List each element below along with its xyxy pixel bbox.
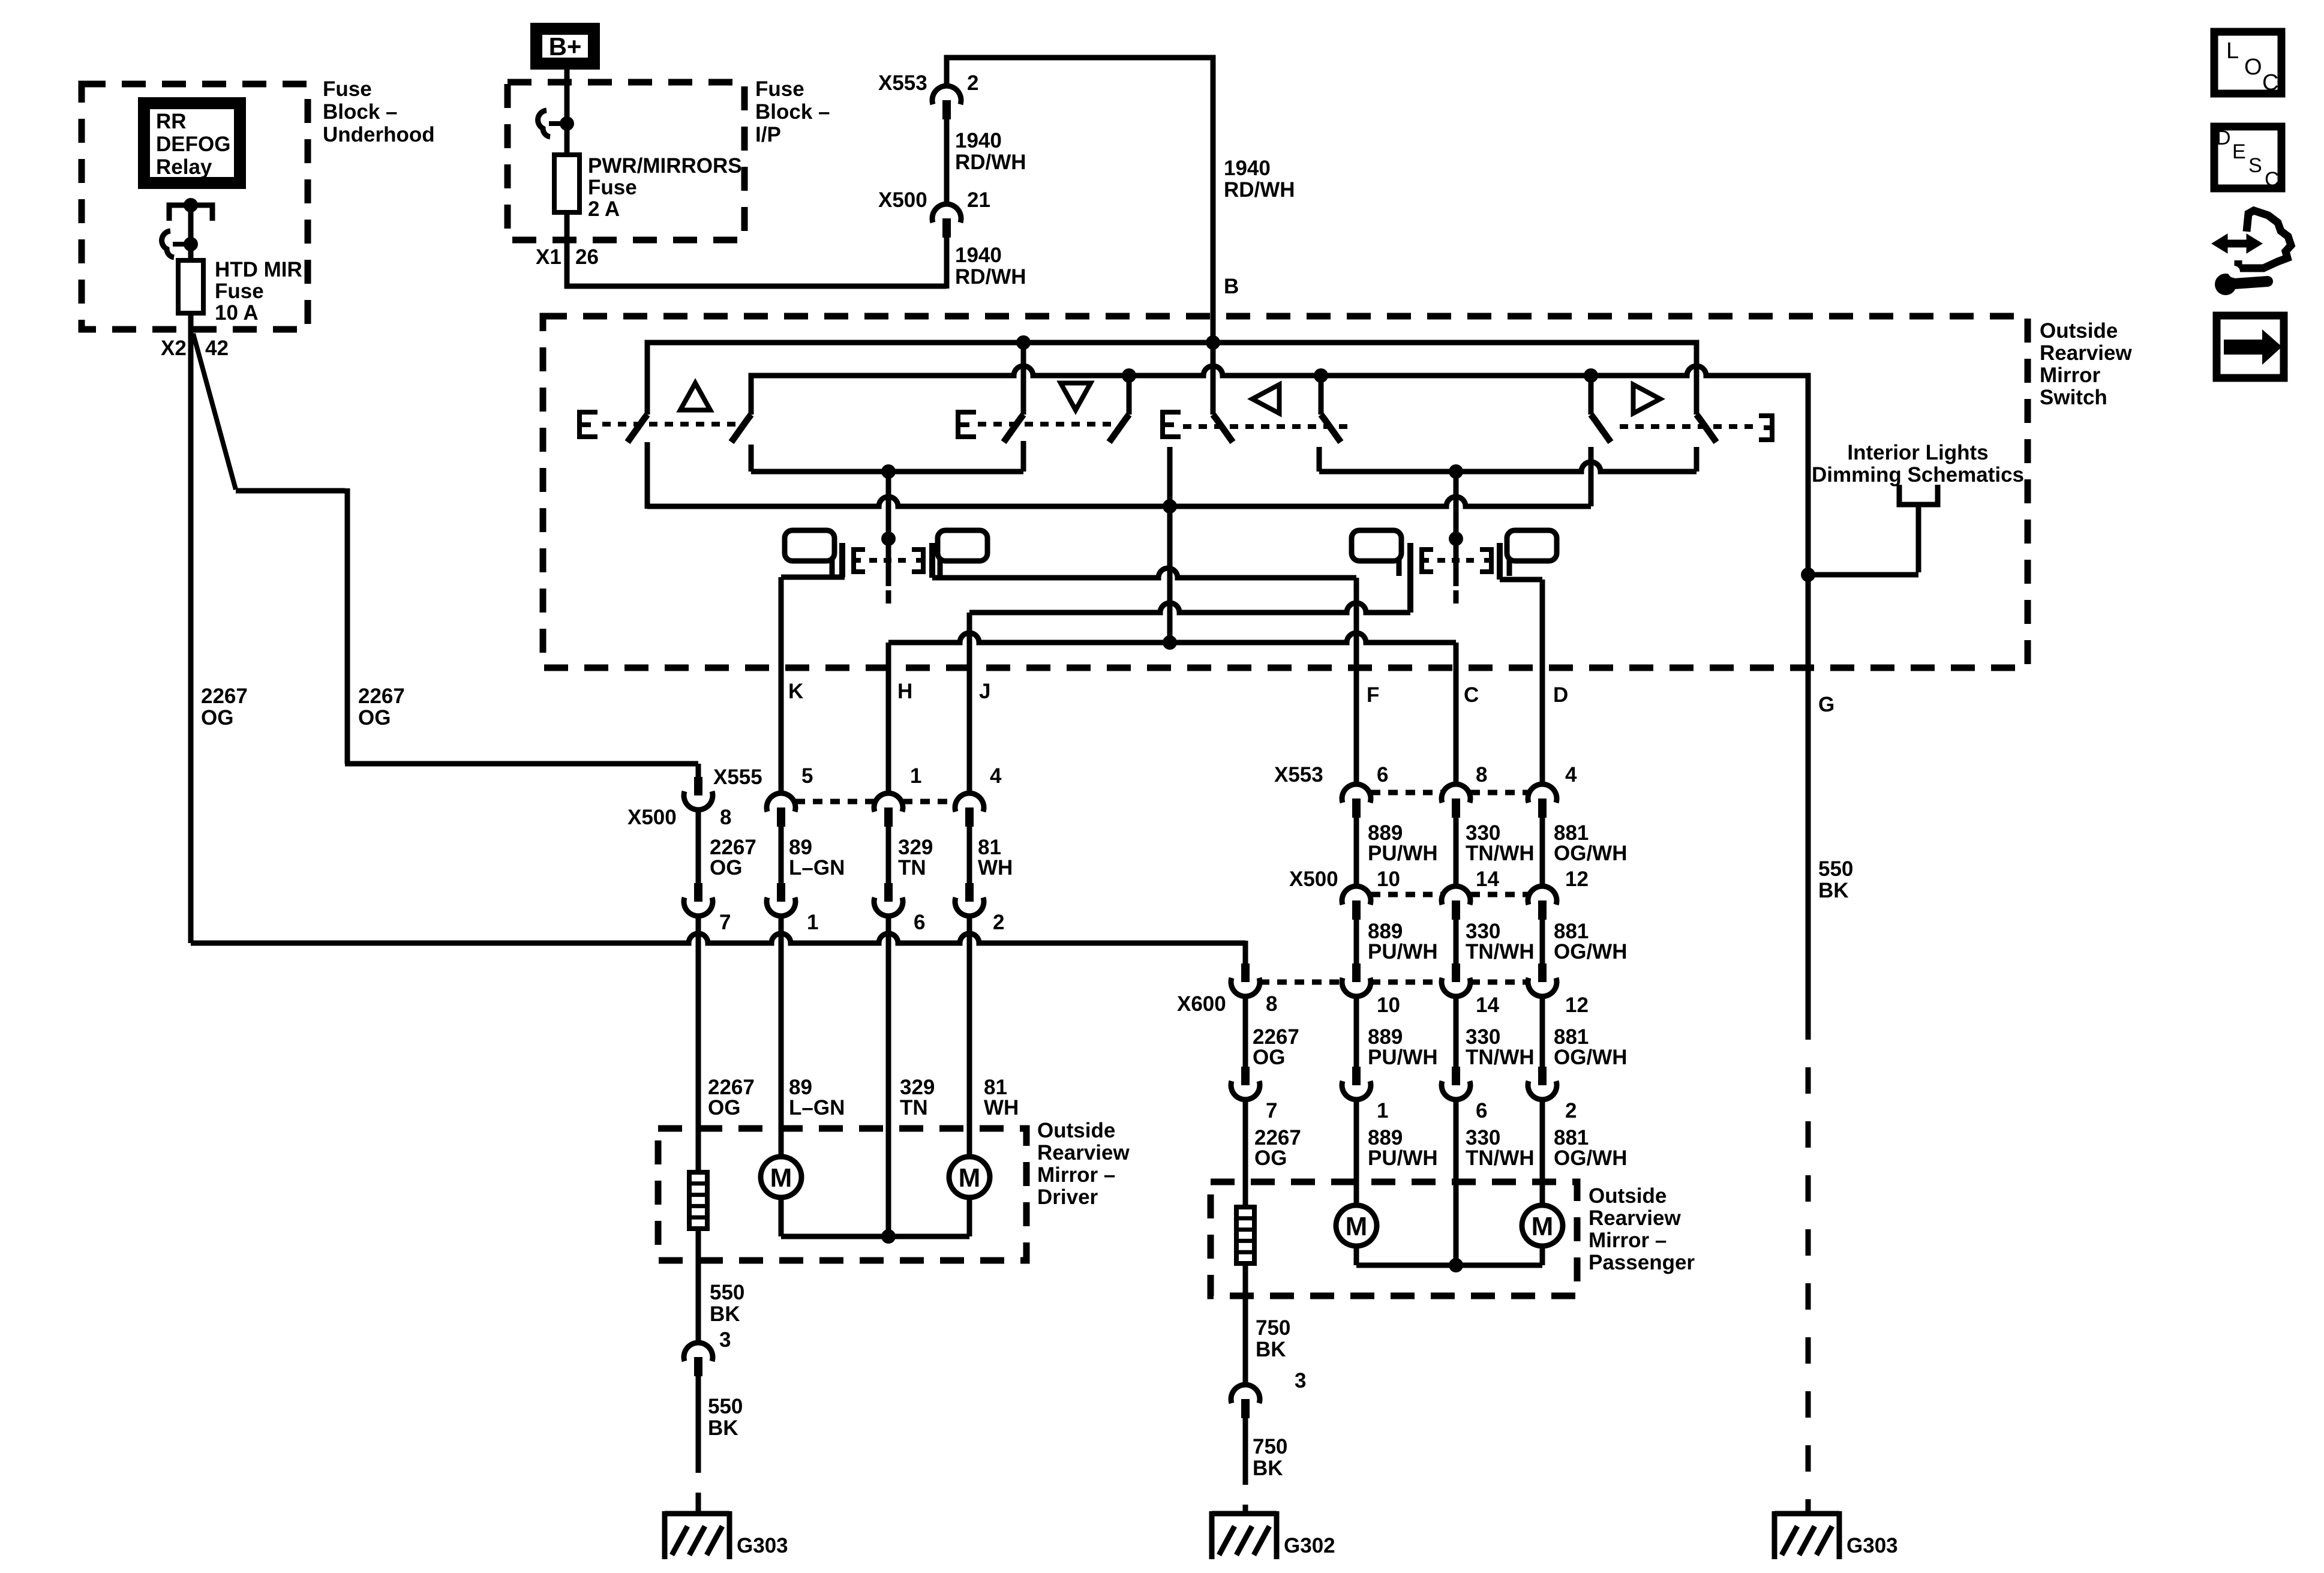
svg-text:8: 8: [720, 806, 731, 829]
svg-text:I/P: I/P: [755, 123, 781, 146]
svg-text:8: 8: [1266, 992, 1277, 1016]
right switch contact A upper terminal: [1589, 376, 1594, 415]
svg-text:Rearview: Rearview: [2040, 341, 2132, 365]
connector X553 pin 4: [1528, 784, 1557, 803]
driver motor left: [761, 1157, 801, 1197]
connector row4 pin 1: [1352, 1067, 1361, 1085]
wire G solid: [1806, 668, 1811, 1013]
wire F x500-x600: [1354, 918, 1359, 963]
down switch contact B blade: [1109, 415, 1129, 442]
svg-text:Rearview: Rearview: [1037, 1141, 1130, 1164]
passenger select dashed linkage: [1437, 558, 1478, 563]
fuse block - I/P (dashed box): [508, 82, 744, 240]
wire D x600-row4: [1540, 996, 1545, 1067]
svg-text:42: 42: [205, 337, 229, 360]
up switch contact A blade: [627, 415, 647, 442]
connector X500 pin 8: [694, 777, 702, 795]
wire F to passenger motor: [1354, 1100, 1359, 1205]
connector X600 pin 14: [1452, 963, 1460, 982]
svg-text:RD/WH: RD/WH: [955, 265, 1026, 289]
connector X553 pin 8: [1442, 784, 1470, 803]
svg-text:X553: X553: [1274, 763, 1323, 786]
svg-text:TN/WH: TN/WH: [1466, 1046, 1535, 1069]
connector X600 pin 8: [1241, 963, 1250, 982]
svg-text:Dimming Schematics: Dimming Schematics: [1812, 463, 2024, 487]
svg-text:J: J: [979, 680, 990, 703]
svg-text:G303: G303: [737, 1534, 788, 1557]
svg-text:RD/WH: RD/WH: [955, 151, 1026, 174]
svg-text:C: C: [2265, 168, 2280, 191]
svg-text:M: M: [1346, 1212, 1368, 1241]
line L3: H to C: [888, 633, 1456, 643]
breaker hook: [162, 231, 174, 257]
driver select right bar: [929, 543, 935, 578]
svg-text:550: 550: [1818, 857, 1853, 881]
connector X500 pin 14: [1442, 886, 1470, 905]
connector X555 pin 1: [874, 793, 903, 812]
driver motor right: [949, 1157, 990, 1197]
svg-text:2: 2: [967, 71, 978, 95]
svg-text:6: 6: [1476, 1099, 1487, 1122]
down switch contact A lower terminal: [1021, 441, 1026, 472]
connector X553 pin 6: [1342, 784, 1371, 803]
svg-text:G302: G302: [1284, 1534, 1335, 1557]
wire fuse to X1-26: [565, 212, 570, 289]
driver select reverse-E: [912, 550, 923, 572]
svg-text:WH: WH: [978, 856, 1013, 879]
dot driver pole feed: [881, 464, 896, 479]
svg-text:X1: X1: [536, 245, 562, 269]
svg-text:10 A: 10 A: [215, 301, 259, 325]
driver select left bar: [839, 543, 845, 577]
LOC icon box: [2214, 32, 2281, 94]
breaker hook I/P: [538, 110, 550, 137]
passenger motor left: [1336, 1205, 1377, 1246]
passenger select pole: [1454, 472, 1459, 586]
svg-text:2: 2: [993, 911, 1004, 934]
svg-text:WH: WH: [984, 1096, 1019, 1119]
ground G303 left: [665, 1511, 729, 1517]
svg-text:10: 10: [1377, 993, 1400, 1017]
line L1: driver right bar to F: [932, 568, 1356, 578]
relay contact brackets: [169, 205, 187, 221]
svg-text:BK: BK: [1818, 879, 1849, 902]
right arrow symbol: [1634, 385, 1661, 413]
svg-text:B+: B+: [549, 32, 582, 61]
svg-text:Rearview: Rearview: [1589, 1206, 1681, 1230]
svg-text:M: M: [959, 1163, 981, 1193]
svg-text:8: 8: [1476, 763, 1487, 786]
svg-text:2267: 2267: [201, 685, 248, 708]
driver select dashed linkage: [869, 558, 909, 563]
svg-text:OG: OG: [1253, 1046, 1285, 1069]
svg-text:OG/WH: OG/WH: [1554, 940, 1627, 963]
wire 2267 x600-row4: [1243, 996, 1248, 1067]
wire H above: [886, 643, 891, 793]
svg-text:HTD MIR: HTD MIR: [215, 258, 302, 281]
outside rearview mirror passenger (dashed box): [1211, 1182, 1577, 1296]
svg-text:3: 3: [1295, 1369, 1306, 1392]
driver motor left wire down: [779, 1197, 784, 1236]
connector driver pin 3: [684, 1343, 713, 1361]
locator icon (car with arrow and wrench): [2212, 234, 2247, 253]
svg-text:G: G: [1818, 693, 1834, 716]
svg-text:C: C: [1464, 683, 1479, 707]
driver mirror icon left: [785, 530, 834, 561]
passenger select reverse-E: [1480, 550, 1491, 572]
bus1 (battery bus): [647, 343, 1697, 415]
svg-text:6: 6: [1377, 763, 1388, 786]
outside rearview mirror driver (dashed box): [658, 1128, 1026, 1260]
connector row pin2: [965, 883, 974, 902]
svg-text:O: O: [2244, 55, 2262, 80]
svg-text:X2: X2: [161, 337, 187, 360]
svg-text:Mirror –: Mirror –: [1589, 1229, 1667, 1252]
wire H to driver common: [886, 916, 891, 1236]
svg-text:OG: OG: [201, 706, 233, 730]
connector X600 pin 10: [1352, 963, 1361, 982]
wire D x500-x600: [1540, 918, 1545, 963]
connector X500 pin 10: [1342, 886, 1371, 905]
wire C to passenger common: [1454, 1100, 1459, 1265]
svg-text:X500: X500: [627, 806, 677, 829]
svg-text:X553: X553: [878, 71, 927, 95]
right actuator dashed link: [1620, 424, 1755, 429]
svg-text:14: 14: [1476, 993, 1499, 1017]
bus1 junction dots: [1016, 335, 1031, 350]
svg-text:TN/WH: TN/WH: [1466, 1146, 1535, 1170]
wire over the top to B: [947, 58, 1213, 415]
connector row pin1b: [777, 883, 785, 902]
svg-text:3: 3: [719, 1328, 731, 1352]
wire J middle: [967, 825, 972, 883]
wire C x500-x600: [1454, 918, 1459, 963]
wire F above: [1354, 578, 1359, 784]
wire colA X500-8 down: [696, 810, 701, 883]
svg-text:BK: BK: [710, 1302, 740, 1326]
X555 dashed link: [795, 799, 874, 804]
svg-text:PWR/MIRRORS: PWR/MIRRORS: [588, 154, 742, 178]
svg-text:PU/WH: PU/WH: [1368, 1146, 1438, 1170]
wire C x553-x500: [1454, 816, 1459, 886]
svg-text:OG: OG: [710, 856, 742, 879]
svg-text:X600: X600: [1177, 992, 1226, 1016]
wire 2267 to X600: [1243, 941, 1248, 963]
down switch contact A upper terminal: [1021, 343, 1026, 415]
passenger heater element: [1236, 1207, 1254, 1263]
svg-text:L: L: [2226, 38, 2239, 64]
right switch contact A lower terminal: [1589, 447, 1594, 506]
svg-text:C: C: [2262, 70, 2278, 95]
svg-text:Switch: Switch: [2040, 386, 2107, 409]
wire branch horizontal: [236, 488, 345, 494]
X600 dashed link: [1260, 980, 1342, 985]
B+ power symbol: [536, 29, 594, 64]
svg-text:10: 10: [1377, 867, 1400, 891]
line passenger right bar to D: [1500, 577, 1542, 583]
left switch contact A lower terminal: [1167, 447, 1173, 643]
wire F x600-row4: [1354, 996, 1359, 1067]
wire fuse to X2-42: [188, 313, 194, 943]
branch diagonal: [193, 334, 236, 490]
up switch contact B blade: [731, 415, 751, 442]
svg-text:TN: TN: [898, 856, 926, 879]
wire up-A bottom corner: [645, 504, 650, 509]
svg-text:M: M: [770, 1163, 792, 1193]
svg-text:OG: OG: [1254, 1146, 1287, 1170]
passenger motor left wire down: [1354, 1246, 1359, 1265]
svg-text:750: 750: [1253, 1435, 1287, 1458]
wire branch vertical: [345, 488, 350, 764]
svg-text:S: S: [2248, 154, 2262, 177]
svg-text:5: 5: [801, 764, 813, 788]
svg-text:Mirror: Mirror: [2040, 364, 2101, 387]
driver motor right wire down: [967, 1197, 972, 1236]
connector X600 pin 12: [1538, 963, 1547, 982]
left switch contact A blade: [1213, 415, 1233, 442]
svg-text:Driver: Driver: [1037, 1185, 1098, 1209]
line L2: J to passenger left bar: [969, 603, 1410, 613]
down switch contact A blade: [1004, 415, 1023, 442]
svg-text:1940: 1940: [955, 129, 1002, 152]
svg-text:Outside: Outside: [2040, 319, 2118, 343]
fuse PWR/MIRRORS 2A: [554, 155, 580, 212]
svg-text:1940: 1940: [955, 244, 1002, 267]
svg-text:4: 4: [990, 764, 1002, 788]
wire relay to breaker: [188, 205, 194, 260]
svg-text:TN: TN: [900, 1096, 928, 1119]
passenger mirror icon right: [1507, 530, 1557, 561]
connector X555 pin 5: [767, 793, 795, 812]
wire B+ down: [565, 70, 570, 155]
passenger select pole tip (dashed): [1454, 590, 1459, 604]
dashed wire to G302: [1243, 1461, 1248, 1511]
left switch contact B upper terminal: [1319, 376, 1324, 415]
passenger common bus: [1356, 1263, 1542, 1268]
connector row4 pin 6: [1452, 1067, 1460, 1085]
connector X500 pin 21: [932, 204, 961, 223]
bus2 junction dots: [1122, 368, 1136, 383]
svg-text:Relay: Relay: [156, 155, 212, 179]
wire branch to X500-8: [345, 761, 698, 767]
svg-text:PU/WH: PU/WH: [1368, 842, 1438, 865]
driver select E: [854, 550, 865, 572]
wire X500-21 to X553-2: [944, 118, 950, 204]
passenger select left bar: [1407, 543, 1413, 613]
right actuator end bracket: [1759, 416, 1772, 440]
wire K above: [779, 577, 784, 793]
svg-text:DEFOG: DEFOG: [156, 133, 230, 156]
ground G302: [1212, 1511, 1277, 1517]
outside rearview mirror switch (dashed box): [543, 316, 2028, 668]
wire C above: [1454, 643, 1459, 784]
wire below pin3: [696, 1375, 701, 1449]
svg-text:1: 1: [1377, 1099, 1388, 1122]
wire D to passenger motor: [1540, 1100, 1545, 1205]
svg-text:7: 7: [719, 911, 731, 934]
up switch contact B lower terminal: [749, 445, 754, 472]
svg-text:D: D: [2216, 127, 2231, 149]
dashed wire to G303: [696, 1449, 701, 1511]
X500 dashed link: [1371, 892, 1442, 897]
wire 2267 to passenger heater: [1243, 1100, 1248, 1207]
dashed wire G to G303: [1806, 1013, 1811, 1511]
up arrow symbol: [680, 383, 710, 410]
svg-text:L–GN: L–GN: [789, 1096, 845, 1119]
svg-text:F: F: [1367, 683, 1379, 707]
svg-text:L–GN: L–GN: [789, 856, 845, 879]
up/down actuator E: [580, 412, 597, 437]
svg-text:4: 4: [1565, 763, 1577, 786]
svg-text:OG: OG: [358, 706, 391, 730]
ground G303 right: [1774, 1511, 1839, 1517]
svg-text:2 A: 2 A: [588, 197, 620, 221]
svg-text:1940: 1940: [1224, 157, 1271, 180]
connector X500 pin 12: [1528, 886, 1557, 905]
wire H middle: [886, 825, 891, 883]
right switch contact A blade: [1591, 415, 1611, 442]
down actuator E: [958, 412, 976, 437]
wire below passenger pin3: [1243, 1417, 1248, 1461]
wire J to driver motor: [967, 916, 972, 1157]
dot passenger pole feed: [1449, 464, 1463, 479]
mid bus: [647, 497, 1591, 506]
left arrow symbol: [1253, 385, 1280, 413]
svg-text:Block –: Block –: [323, 100, 398, 124]
svg-text:Mirror –: Mirror –: [1037, 1163, 1115, 1187]
svg-text:B: B: [1224, 275, 1239, 298]
svg-text:750: 750: [1256, 1316, 1290, 1340]
wire 2267 feed horizontal: [191, 933, 1245, 943]
svg-text:12: 12: [1565, 867, 1589, 891]
svg-text:Underhood: Underhood: [323, 123, 435, 146]
left actuator E: [1163, 412, 1181, 437]
down actuator dashed link: [978, 422, 1117, 427]
svg-text:D: D: [1553, 683, 1568, 707]
relay RR DEFOG (bold box): [144, 103, 240, 183]
connector X553 pin 2: [932, 86, 961, 104]
fuse block - underhood (dashed box): [82, 84, 308, 329]
svg-text:Fuse: Fuse: [215, 280, 264, 303]
svg-text:550: 550: [708, 1395, 743, 1418]
passenger select right bar: [1497, 543, 1503, 580]
passenger motor right: [1522, 1205, 1563, 1246]
up switch contact A lower terminal: [645, 442, 650, 506]
svg-text:14: 14: [1476, 867, 1499, 891]
wire passenger heater down: [1243, 1263, 1248, 1385]
connector row4 pin 2: [1538, 1067, 1547, 1085]
svg-text:12: 12: [1565, 993, 1589, 1017]
svg-text:Block –: Block –: [755, 100, 830, 124]
passenger motor right wire down: [1540, 1246, 1545, 1265]
svg-text:OG: OG: [708, 1096, 740, 1119]
line y786 right segment: [1319, 462, 1697, 472]
svg-text:X500: X500: [1289, 867, 1338, 891]
svg-text:21: 21: [967, 188, 990, 212]
wire driver heater down: [696, 1229, 701, 1343]
left switch contact B blade: [1321, 415, 1341, 442]
svg-text:1: 1: [910, 764, 921, 788]
wire J above: [967, 613, 972, 793]
driver select pole tip (dashed): [886, 590, 891, 604]
driver select pole: [886, 472, 891, 586]
left switch contact B lower terminal: [1317, 447, 1322, 472]
svg-text:2: 2: [1565, 1099, 1577, 1122]
svg-text:OG/WH: OG/WH: [1554, 1146, 1627, 1170]
wire K to driver motor: [779, 916, 784, 1157]
connector row pin7: [694, 883, 702, 902]
svg-text:26: 26: [575, 245, 599, 269]
svg-text:M: M: [1532, 1212, 1554, 1241]
X553 dashed link: [1371, 790, 1442, 795]
connector row pin6: [884, 883, 893, 902]
connector row4 pin 7: [1241, 1067, 1250, 1085]
svg-text:Passenger: Passenger: [1589, 1251, 1695, 1274]
wire F x553-x500: [1354, 816, 1359, 886]
svg-text:Outside: Outside: [1037, 1119, 1115, 1142]
svg-text:Fuse: Fuse: [755, 77, 804, 101]
right switch contact B lower terminal: [1694, 447, 1700, 472]
wire K middle: [779, 825, 784, 883]
svg-text:RR: RR: [156, 110, 187, 133]
wire C x600-row4: [1454, 996, 1459, 1067]
connector X555 pin 4: [955, 793, 984, 812]
down switch contact B upper terminal: [1127, 376, 1132, 415]
svg-text:2267: 2267: [358, 685, 405, 708]
down arrow symbol: [1061, 383, 1091, 410]
svg-text:X555: X555: [713, 766, 762, 789]
wire to X500-21: [565, 284, 947, 289]
bus2 (second bus): [751, 366, 1808, 668]
right switch contact B blade: [1697, 415, 1716, 442]
fuse HTD MIR 10A: [178, 260, 203, 313]
svg-text:X500: X500: [878, 188, 927, 212]
DESC icon box: [2214, 127, 2281, 188]
svg-text:1: 1: [807, 911, 818, 934]
interior lights branch wire: [1808, 572, 1918, 578]
svg-text:Outside: Outside: [1589, 1184, 1667, 1208]
svg-text:BK: BK: [708, 1416, 738, 1440]
svg-text:K: K: [788, 680, 803, 703]
driver common bus: [781, 1234, 969, 1239]
driver heater element: [689, 1172, 707, 1229]
svg-text:E: E: [2232, 140, 2246, 163]
svg-text:PU/WH: PU/WH: [1368, 1046, 1438, 1069]
svg-text:Fuse: Fuse: [588, 176, 637, 199]
passenger select E: [1422, 550, 1433, 572]
svg-text:G303: G303: [1846, 1534, 1898, 1557]
line y786 left segment: [751, 469, 1023, 475]
svg-text:7: 7: [1266, 1099, 1277, 1122]
svg-text:6: 6: [914, 911, 925, 934]
svg-text:BK: BK: [1253, 1457, 1283, 1480]
svg-text:Fuse: Fuse: [323, 77, 372, 101]
connector passenger pin 3: [1231, 1385, 1260, 1403]
svg-text:H: H: [897, 680, 912, 703]
wire D above: [1540, 580, 1545, 784]
svg-text:550: 550: [710, 1281, 744, 1304]
svg-text:OG/WH: OG/WH: [1554, 1046, 1627, 1069]
passenger mirror icon left: [1352, 530, 1401, 561]
interior lights bracket: [1899, 485, 1938, 505]
svg-text:TN/WH: TN/WH: [1466, 940, 1535, 963]
wire colA to driver heater: [696, 916, 701, 1172]
svg-text:RD/WH: RD/WH: [1224, 178, 1295, 202]
svg-text:TN/WH: TN/WH: [1466, 842, 1535, 865]
wire D x553-x500: [1540, 816, 1545, 886]
svg-text:OG/WH: OG/WH: [1554, 842, 1627, 865]
svg-text:PU/WH: PU/WH: [1368, 940, 1438, 963]
